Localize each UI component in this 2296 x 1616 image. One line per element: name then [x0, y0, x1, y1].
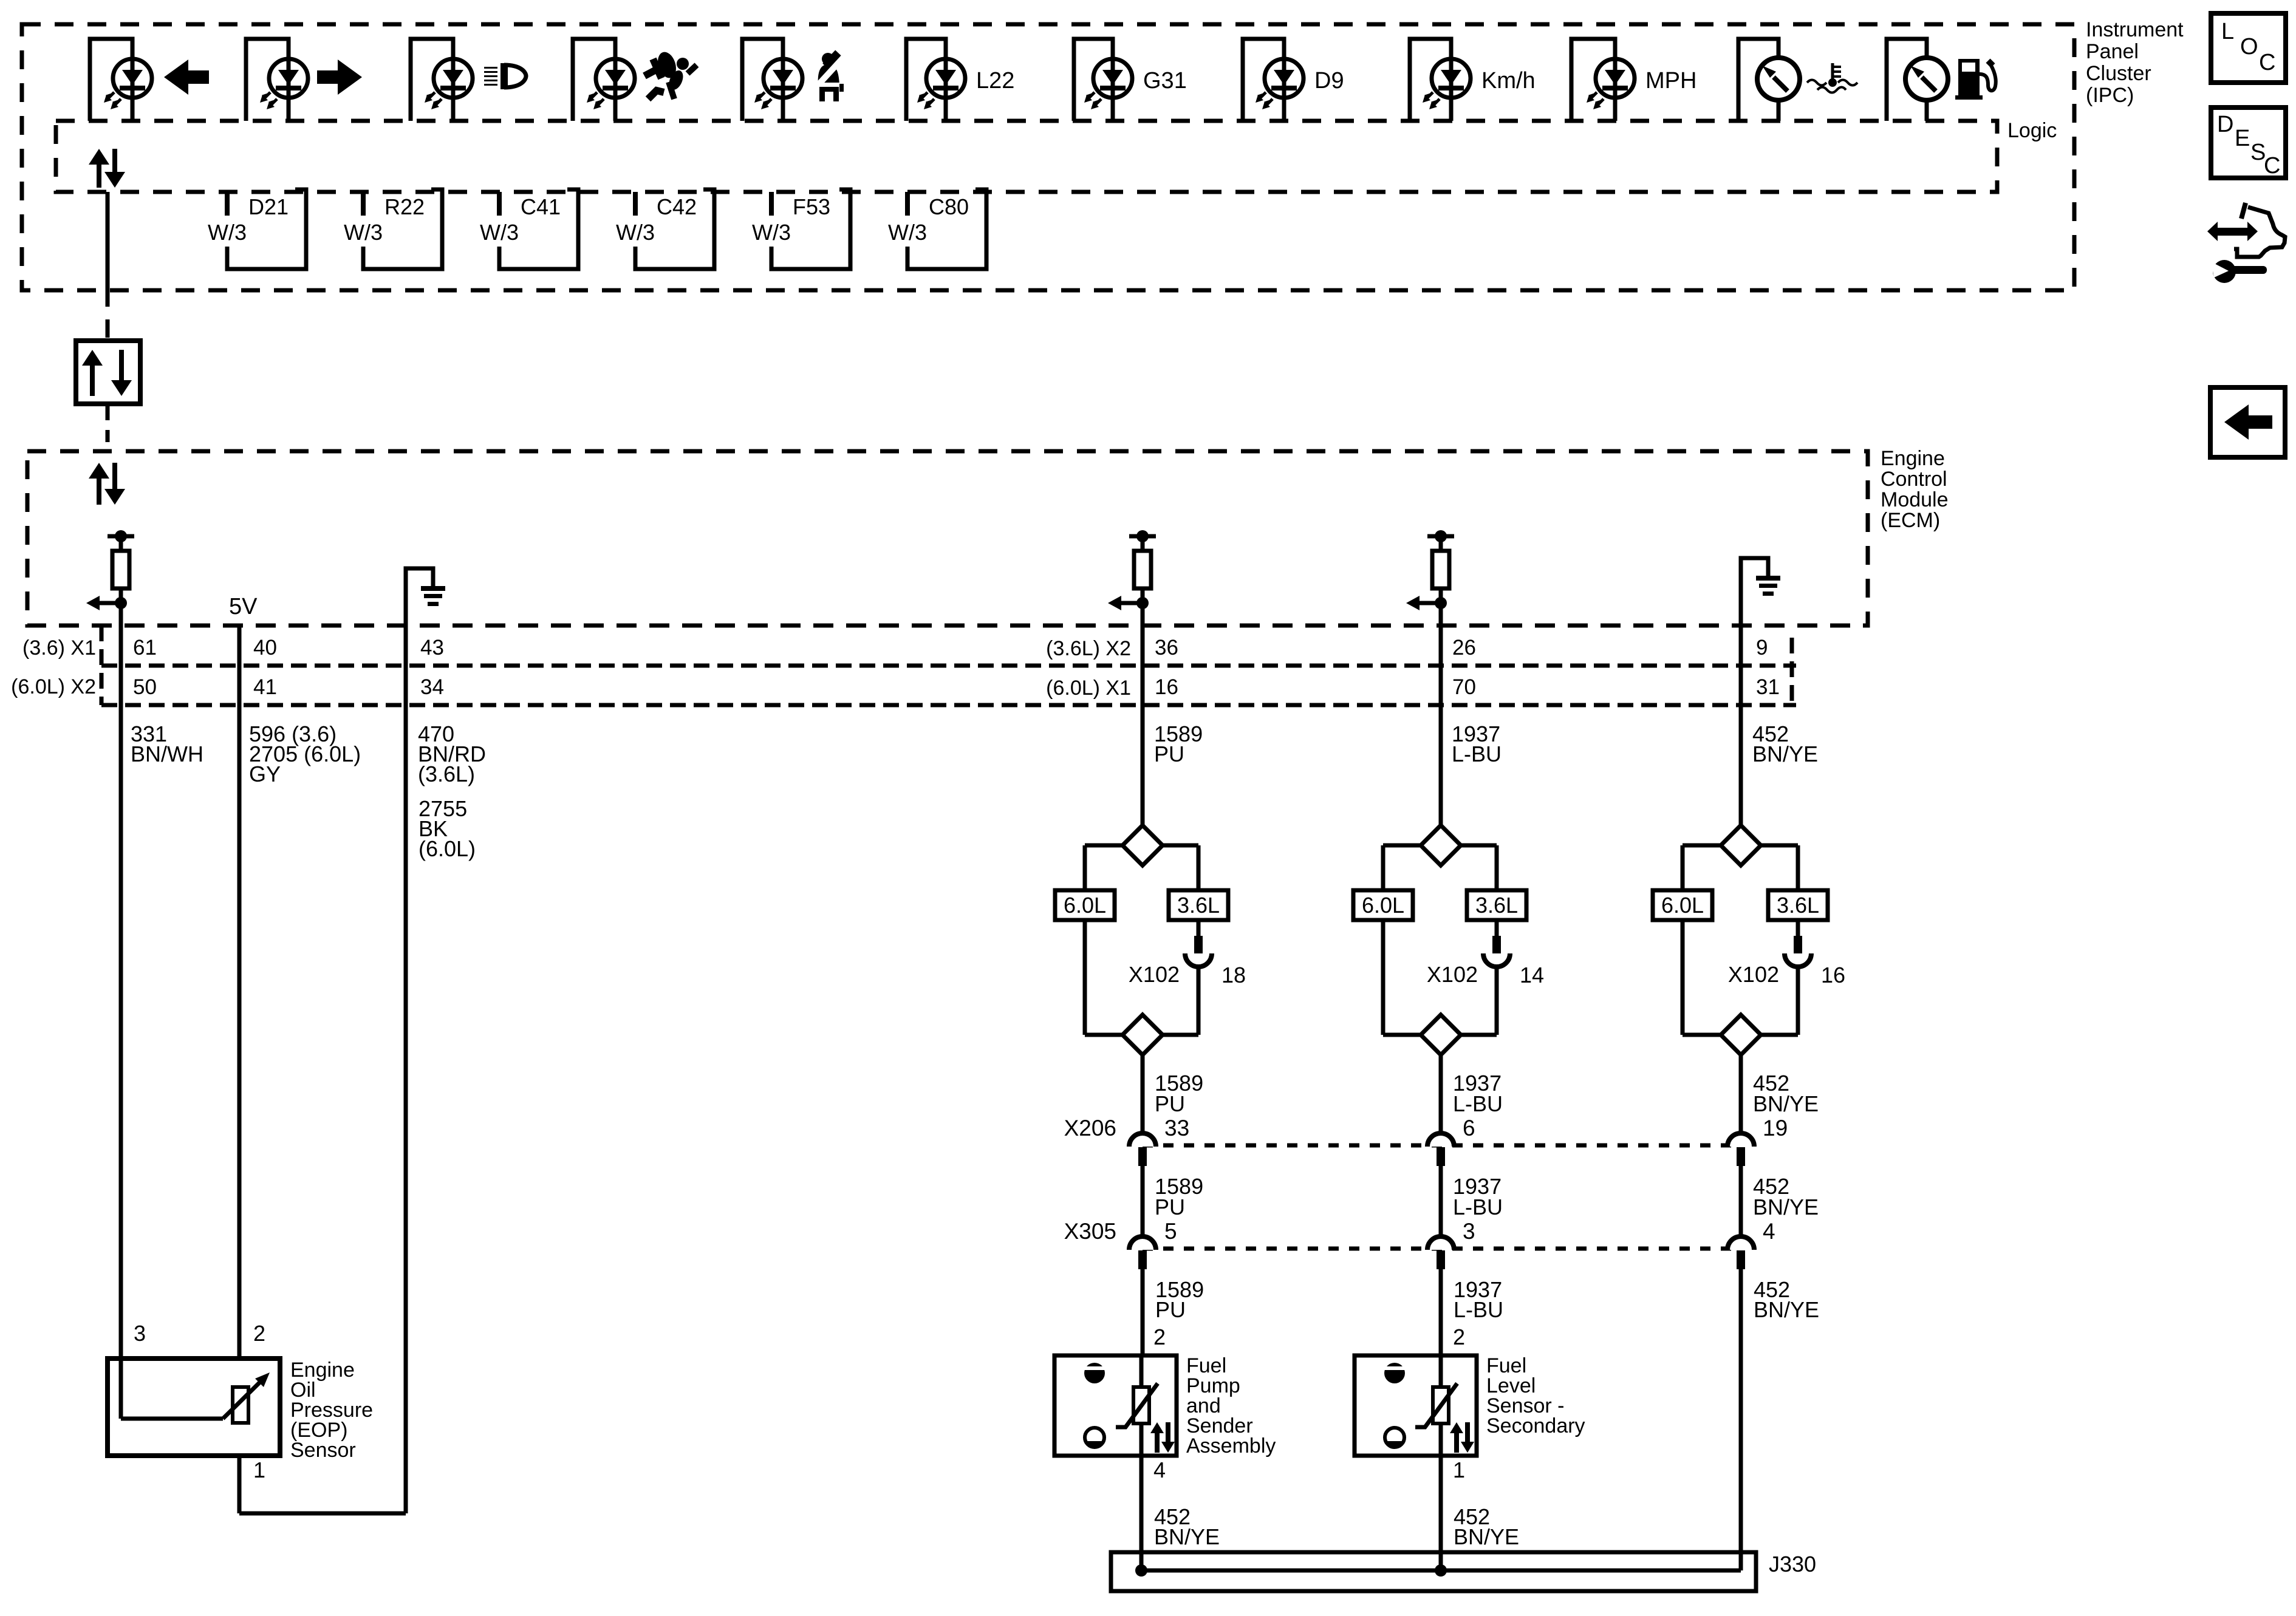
svg-text:PU: PU	[1155, 1091, 1185, 1116]
svg-text:4: 4	[1153, 1457, 1166, 1482]
svg-text:2: 2	[253, 1321, 265, 1346]
svg-text:6: 6	[1463, 1116, 1475, 1140]
svg-text:G31: G31	[1143, 68, 1187, 94]
svg-text:C80: C80	[929, 194, 969, 219]
svg-text:Panel: Panel	[2086, 40, 2139, 63]
svg-text:Engine: Engine	[1881, 447, 1945, 470]
svg-text:Cluster: Cluster	[2086, 62, 2151, 85]
svg-text:BN/YE: BN/YE	[1752, 742, 1818, 766]
svg-text:L-BU: L-BU	[1452, 742, 1502, 766]
svg-text:5: 5	[1164, 1219, 1177, 1244]
svg-text:33: 33	[1164, 1116, 1189, 1140]
svg-text:D9: D9	[1314, 68, 1344, 94]
svg-text:3: 3	[134, 1321, 146, 1346]
svg-text:3.6L: 3.6L	[1777, 893, 1819, 918]
svg-text:Logic: Logic	[2007, 119, 2057, 142]
svg-text:16: 16	[1821, 963, 1845, 987]
svg-text:W/3: W/3	[208, 220, 247, 245]
svg-text:26: 26	[1452, 636, 1476, 660]
svg-text:(6.0L) X1: (6.0L) X1	[1046, 677, 1131, 700]
svg-text:6.0L: 6.0L	[1064, 893, 1106, 918]
svg-text:W/3: W/3	[616, 220, 655, 245]
svg-text:J330: J330	[1769, 1552, 1816, 1577]
svg-text:BN/YE: BN/YE	[1454, 1524, 1519, 1549]
svg-text:GY: GY	[249, 762, 281, 786]
svg-text:W/3: W/3	[480, 220, 519, 245]
svg-text:O: O	[2240, 34, 2258, 60]
svg-text:36: 36	[1155, 636, 1178, 660]
svg-text:(3.6) X1: (3.6) X1	[22, 636, 96, 660]
svg-text:2: 2	[1453, 1325, 1465, 1349]
svg-text:34: 34	[420, 675, 444, 699]
svg-text:F53: F53	[793, 194, 830, 219]
svg-text:L-BU: L-BU	[1454, 1297, 1503, 1322]
svg-text:BN/YE: BN/YE	[1753, 1091, 1819, 1116]
svg-text:Control: Control	[1881, 468, 1947, 491]
svg-text:C: C	[2259, 50, 2275, 75]
svg-text:6.0L: 6.0L	[1362, 893, 1404, 918]
svg-text:40: 40	[253, 636, 277, 660]
svg-text:Assembly: Assembly	[1186, 1434, 1276, 1457]
svg-text:W/3: W/3	[888, 220, 927, 245]
svg-text:Instrument: Instrument	[2086, 18, 2184, 41]
svg-text:C42: C42	[657, 194, 697, 219]
svg-text:14: 14	[1520, 963, 1544, 987]
svg-text:3.6L: 3.6L	[1475, 893, 1518, 918]
svg-text:1: 1	[253, 1457, 265, 1482]
svg-text:3.6L: 3.6L	[1177, 893, 1220, 918]
svg-text:(ECM): (ECM)	[1881, 509, 1940, 532]
svg-text:L-BU: L-BU	[1453, 1195, 1503, 1219]
svg-text:PU: PU	[1155, 1297, 1186, 1322]
svg-text:C41: C41	[521, 194, 561, 219]
svg-text:L-BU: L-BU	[1453, 1091, 1503, 1116]
svg-text:Km/h: Km/h	[1481, 68, 1536, 94]
svg-text:4: 4	[1763, 1219, 1775, 1244]
svg-text:BN/YE: BN/YE	[1154, 1524, 1220, 1549]
svg-text:BN/WH: BN/WH	[131, 742, 203, 766]
svg-text:18: 18	[1221, 963, 1246, 987]
svg-text:PU: PU	[1154, 742, 1184, 766]
svg-text:16: 16	[1155, 675, 1178, 699]
svg-text:61: 61	[133, 636, 157, 660]
svg-text:X102: X102	[1129, 962, 1180, 987]
svg-text:43: 43	[420, 636, 444, 660]
svg-text:PU: PU	[1155, 1195, 1185, 1219]
svg-text:3: 3	[1463, 1219, 1475, 1244]
svg-text:50: 50	[133, 675, 157, 699]
svg-text:D: D	[2217, 112, 2233, 137]
svg-text:C: C	[2264, 153, 2280, 179]
svg-text:70: 70	[1452, 675, 1476, 699]
svg-text:6.0L: 6.0L	[1661, 893, 1704, 918]
svg-text:(6.0L) X2: (6.0L) X2	[11, 675, 96, 698]
svg-text:W/3: W/3	[344, 220, 383, 245]
svg-text:1: 1	[1453, 1457, 1465, 1482]
svg-text:41: 41	[253, 675, 277, 699]
svg-text:(3.6L): (3.6L)	[418, 762, 475, 786]
svg-text:31: 31	[1756, 675, 1780, 699]
svg-text:L: L	[2221, 19, 2234, 44]
svg-text:(3.6L) X2: (3.6L) X2	[1046, 637, 1131, 660]
svg-text:L22: L22	[976, 68, 1014, 94]
svg-text:BN/YE: BN/YE	[1754, 1297, 1819, 1322]
svg-text:(6.0L): (6.0L)	[419, 836, 476, 861]
svg-text:W/3: W/3	[752, 220, 791, 245]
svg-text:X305: X305	[1064, 1219, 1116, 1244]
svg-text:R22: R22	[384, 194, 425, 219]
svg-text:5V: 5V	[229, 594, 258, 619]
svg-text:X102: X102	[1427, 962, 1478, 987]
svg-text:9: 9	[1756, 636, 1768, 660]
svg-text:X102: X102	[1728, 962, 1779, 987]
svg-text:BN/YE: BN/YE	[1753, 1195, 1819, 1219]
svg-text:2: 2	[1153, 1325, 1166, 1349]
svg-text:MPH: MPH	[1645, 68, 1696, 94]
svg-text:Sensor: Sensor	[290, 1439, 356, 1462]
svg-text:X206: X206	[1064, 1116, 1116, 1140]
svg-text:19: 19	[1763, 1116, 1788, 1140]
svg-text:(IPC): (IPC)	[2086, 84, 2134, 107]
svg-text:Module: Module	[1881, 488, 1949, 511]
svg-text:E: E	[2235, 126, 2250, 151]
svg-text:D21: D21	[248, 194, 289, 219]
svg-text:Secondary: Secondary	[1486, 1414, 1585, 1437]
